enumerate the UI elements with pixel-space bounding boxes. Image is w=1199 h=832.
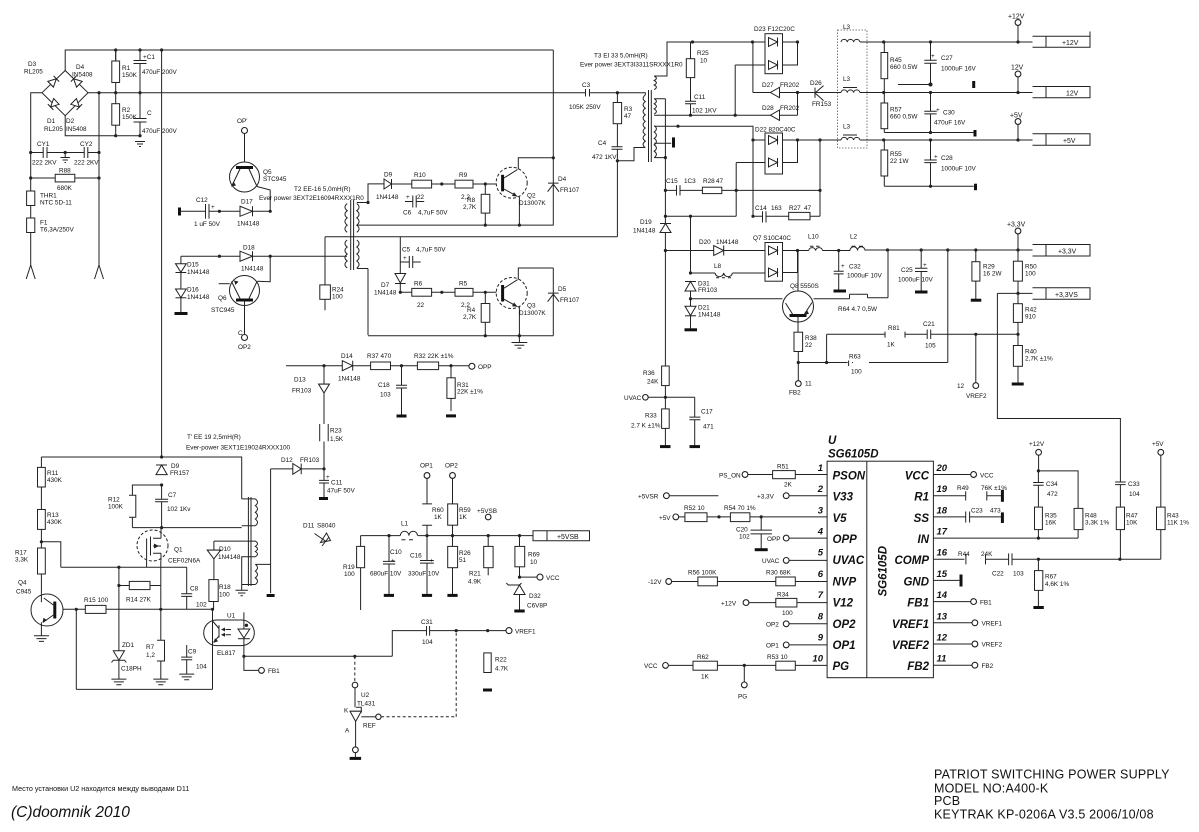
svg-text:R54 70 1%: R54 70 1% bbox=[724, 505, 756, 512]
wire left AC rail bbox=[31, 93, 42, 265]
transformer T2 core bbox=[351, 200, 354, 270]
wire Q1 drain row y=527.6 bbox=[132, 527, 241, 529]
svg-text:C17: C17 bbox=[701, 409, 713, 416]
svg-text:Q7 S10C40C: Q7 S10C40C bbox=[753, 235, 791, 242]
AC line arrow left bbox=[26, 265, 35, 279]
svg-text:D23 F12C20C: D23 F12C20C bbox=[754, 26, 795, 33]
wire D22 lower input bbox=[736, 163, 765, 217]
svg-text:D9: D9 bbox=[171, 463, 180, 470]
svg-text:680K: 680K bbox=[57, 185, 73, 192]
svg-text:104: 104 bbox=[422, 639, 433, 646]
svg-text:D7: D7 bbox=[381, 282, 390, 289]
ground D21 bbox=[685, 328, 698, 331]
svg-text:19: 19 bbox=[937, 484, 948, 495]
resistor R62 1K bbox=[693, 661, 717, 670]
svg-text:222 2KV: 222 2KV bbox=[74, 160, 99, 167]
capacitor C1 470uF 200V bbox=[134, 50, 147, 93]
resistor R11 430K bbox=[38, 467, 46, 487]
svg-text:R38: R38 bbox=[805, 335, 817, 342]
svg-text:2.7 K ±1%: 2.7 K ±1% bbox=[631, 423, 661, 430]
svg-text:C9: C9 bbox=[188, 649, 197, 656]
wire Q6 base stub bbox=[219, 283, 230, 285]
diode D2 bbox=[71, 99, 82, 110]
svg-text:EL817: EL817 bbox=[217, 650, 236, 657]
svg-text:C18PH: C18PH bbox=[121, 666, 142, 673]
svg-text:R47: R47 bbox=[1126, 513, 1138, 520]
resistor R53 10 bbox=[776, 661, 796, 670]
svg-text:FR202: FR202 bbox=[780, 105, 800, 112]
resistor R21 4.9K bbox=[484, 546, 493, 567]
svg-text:FR157: FR157 bbox=[170, 470, 190, 477]
svg-text:UVAC: UVAC bbox=[762, 558, 780, 565]
svg-text:R27: R27 bbox=[789, 205, 801, 212]
svg-text:R43: R43 bbox=[1167, 513, 1179, 520]
svg-text:R40: R40 bbox=[1025, 349, 1037, 356]
capacitor C4 472 1KV bbox=[612, 147, 623, 237]
transformer T2 left winding bbox=[345, 204, 347, 269]
wire +12V comp branch bbox=[1038, 471, 1078, 509]
svg-text:+: + bbox=[931, 53, 935, 60]
transistor Q5 STC945 bbox=[230, 162, 260, 192]
resistor R40 2,7K bbox=[1013, 346, 1022, 367]
wire rectifier bus x=753 bbox=[753, 140, 765, 216]
svg-text:22 1W: 22 1W bbox=[890, 158, 909, 165]
wire U2 dashed feed bbox=[354, 656, 356, 682]
svg-text:PG: PG bbox=[738, 694, 747, 701]
svg-text:+: + bbox=[406, 194, 410, 201]
ground GND pin15 bbox=[933, 579, 959, 581]
svg-text:R36: R36 bbox=[643, 370, 655, 377]
svg-text:Ever power 3EXT3I3311SRXXX1R0: Ever power 3EXT3I3311SRXXX1R0 bbox=[580, 62, 683, 69]
svg-text:C31: C31 bbox=[421, 619, 433, 626]
svg-text:1N4148: 1N4148 bbox=[698, 312, 721, 319]
svg-text:C12: C12 bbox=[196, 197, 208, 204]
svg-text:2,7K: 2,7K bbox=[463, 314, 477, 321]
svg-text:R24: R24 bbox=[332, 287, 344, 294]
svg-text:22: 22 bbox=[417, 194, 425, 201]
terminal VCC pin20 bbox=[933, 474, 970, 476]
resistor R36 24K bbox=[662, 366, 670, 386]
svg-text:IN5408: IN5408 bbox=[66, 126, 87, 133]
svg-text:T' EE 19 2,5mH(R): T' EE 19 2,5mH(R) bbox=[187, 434, 241, 441]
capacitor C7 102 1Kv bbox=[155, 485, 168, 528]
resistor R30 68K bbox=[776, 577, 796, 586]
svg-text:660 0.5W: 660 0.5W bbox=[890, 64, 918, 71]
svg-text:L8: L8 bbox=[714, 263, 722, 270]
svg-text:R8: R8 bbox=[467, 197, 476, 204]
svg-text:R57: R57 bbox=[890, 107, 902, 114]
svg-text:C28: C28 bbox=[941, 155, 953, 162]
wire +5V rail bbox=[860, 139, 1033, 141]
svg-text:11: 11 bbox=[805, 381, 812, 388]
svg-text:R37 470: R37 470 bbox=[367, 353, 392, 360]
svg-text:D3: D3 bbox=[28, 61, 37, 68]
svg-text:C: C bbox=[147, 110, 152, 117]
svg-text:15: 15 bbox=[937, 569, 948, 580]
ground ZD1 bbox=[111, 679, 126, 685]
svg-text:1N4148: 1N4148 bbox=[376, 194, 399, 201]
ground below C bbox=[135, 142, 145, 147]
diode D19 1N4148 bbox=[660, 223, 671, 225]
svg-text:1K: 1K bbox=[434, 514, 443, 521]
svg-text:76K ±1%: 76K ±1% bbox=[981, 485, 1007, 492]
capacitor C30 470uF 16V bbox=[924, 93, 936, 133]
svg-text:R14 27K: R14 27K bbox=[126, 597, 152, 604]
wire OP' to Q5 bbox=[244, 134, 246, 163]
node junction dots top rail bbox=[114, 48, 117, 51]
capacitor C28 1000uF 10V bbox=[924, 140, 936, 186]
svg-text:Место установки U2 находится м: Место установки U2 находится между вывод… bbox=[12, 784, 189, 793]
svg-text:R10: R10 bbox=[414, 172, 426, 179]
svg-text:U1: U1 bbox=[227, 613, 236, 620]
wire T2 bottom right to Q3 emitter return bbox=[357, 269, 368, 336]
resistor R14 27K bbox=[129, 581, 150, 589]
transformer T3 secondary windings bbox=[654, 76, 656, 158]
svg-text:8: 8 bbox=[818, 611, 824, 622]
svg-text:C14: C14 bbox=[755, 205, 767, 212]
resistor R45 660 0.5W bbox=[881, 53, 888, 79]
wire h2 y=216.2 bbox=[665, 215, 736, 217]
svg-text:R15 100: R15 100 bbox=[84, 597, 109, 604]
svg-text:4.7K: 4.7K bbox=[495, 666, 509, 673]
svg-text:10: 10 bbox=[812, 654, 823, 665]
svg-text:R33: R33 bbox=[645, 413, 657, 420]
svg-text:C6: C6 bbox=[403, 210, 412, 217]
diode D17 1N4148 bbox=[219, 206, 270, 216]
svg-text:STC945: STC945 bbox=[211, 307, 235, 314]
svg-text:R11: R11 bbox=[47, 470, 59, 477]
svg-text:1000uF 10V: 1000uF 10V bbox=[941, 166, 977, 173]
wire ground rail 12V row bbox=[898, 84, 931, 86]
wire OPP snubber row y=365.7 bbox=[286, 365, 469, 367]
wire right AC rail bbox=[98, 93, 100, 265]
svg-text:D18: D18 bbox=[243, 245, 255, 252]
svg-text:FB1: FB1 bbox=[268, 668, 280, 675]
ground earth at CY junction bbox=[64, 151, 67, 154]
svg-text:13: 13 bbox=[937, 611, 948, 622]
svg-text:100: 100 bbox=[332, 294, 343, 301]
svg-text:+12V: +12V bbox=[721, 600, 737, 607]
svg-text:R32 22K ±1%: R32 22K ±1% bbox=[414, 353, 454, 360]
svg-text:470uF 200V: 470uF 200V bbox=[142, 69, 178, 76]
resistor R67 4,6K bbox=[1037, 559, 1039, 570]
diode D31 FR103 bbox=[685, 281, 696, 283]
svg-text:150K: 150K bbox=[122, 72, 138, 79]
svg-text:222 2KV: 222 2KV bbox=[32, 160, 57, 167]
svg-text:R62: R62 bbox=[697, 654, 709, 661]
transformer T2 right winding bbox=[357, 204, 359, 269]
svg-text:R23: R23 bbox=[330, 428, 342, 435]
svg-text:105K 250V: 105K 250V bbox=[569, 104, 601, 111]
diode D10 1N4148 bbox=[207, 541, 220, 580]
wire Q8 base bbox=[691, 298, 783, 300]
svg-text:+5VSB: +5VSB bbox=[557, 534, 579, 541]
resistor R10 22 bbox=[412, 180, 432, 188]
capacitor C33 104 bbox=[1115, 482, 1126, 507]
svg-text:R1: R1 bbox=[914, 492, 929, 504]
capacitor C6 4,7uF 50V bbox=[405, 196, 424, 208]
svg-text:L10: L10 bbox=[808, 234, 819, 241]
resistor R25 10 bbox=[686, 59, 694, 78]
svg-text:C16: C16 bbox=[410, 553, 422, 560]
svg-text:100: 100 bbox=[219, 592, 230, 599]
terminal VREF1 bbox=[506, 628, 512, 634]
terminal FB2 pin11 bbox=[933, 664, 972, 666]
svg-text:R81: R81 bbox=[888, 325, 900, 332]
svg-text:SS: SS bbox=[914, 513, 930, 525]
svg-text:GND: GND bbox=[903, 576, 929, 588]
wire y=126.2 winding to rectifier bus bbox=[654, 126, 753, 140]
terminal FB2 pin11 bbox=[795, 381, 801, 387]
svg-text:R52 10: R52 10 bbox=[684, 505, 705, 512]
resistor R54 70 1% bbox=[730, 513, 750, 522]
svg-text:12: 12 bbox=[937, 633, 948, 644]
diode D9 1N4148 bbox=[368, 179, 412, 203]
svg-text:L3: L3 bbox=[843, 24, 851, 31]
svg-text:NVP: NVP bbox=[833, 576, 857, 588]
svg-text:3: 3 bbox=[818, 505, 824, 516]
diode D20 1N4148 bbox=[714, 246, 724, 256]
wire h3 +3.3 generation y=250.5 bbox=[665, 250, 765, 252]
wire T2 top right to D9 node bbox=[357, 184, 368, 203]
svg-text:5: 5 bbox=[818, 548, 824, 559]
resistor R1 150K bbox=[112, 61, 120, 83]
svg-text:OP2: OP2 bbox=[833, 619, 857, 631]
svg-text:R12: R12 bbox=[108, 497, 120, 504]
svg-text:4: 4 bbox=[817, 527, 824, 538]
diode D13 FR103 bbox=[319, 366, 330, 469]
svg-text:22K ±1%: 22K ±1% bbox=[457, 389, 483, 396]
svg-text:Q1: Q1 bbox=[174, 547, 183, 554]
svg-text:C7: C7 bbox=[168, 492, 177, 499]
capacitor C22 103 bbox=[1009, 553, 1161, 565]
svg-text:1N4148: 1N4148 bbox=[237, 221, 260, 228]
svg-text:R49: R49 bbox=[957, 485, 969, 492]
svg-text:R30 68K: R30 68K bbox=[766, 570, 792, 577]
svg-text:FR103: FR103 bbox=[698, 287, 718, 294]
capacitor C11 102 1KV bbox=[685, 101, 696, 115]
svg-text:11: 11 bbox=[937, 654, 947, 665]
svg-text:47: 47 bbox=[804, 205, 812, 212]
choke L3 dashed box bbox=[838, 30, 868, 148]
wire +5VSB rail y=535.6 bbox=[361, 535, 533, 537]
svg-text:R51: R51 bbox=[777, 464, 789, 471]
capacitor C 470uF 200V bbox=[134, 93, 147, 136]
svg-text:R29: R29 bbox=[983, 264, 995, 271]
svg-text:4.9K: 4.9K bbox=[468, 579, 482, 586]
svg-text:47uF 50V: 47uF 50V bbox=[327, 488, 355, 495]
svg-text:-12V: -12V bbox=[648, 579, 662, 586]
svg-text:D16: D16 bbox=[187, 287, 199, 294]
svg-text:47: 47 bbox=[624, 113, 632, 120]
svg-text:D4: D4 bbox=[558, 176, 567, 183]
svg-text:COMP: COMP bbox=[895, 555, 930, 567]
svg-text:1,2: 1,2 bbox=[146, 652, 155, 659]
capacitor C21 105 bbox=[927, 330, 1018, 340]
svg-text:OPP: OPP bbox=[833, 534, 858, 546]
svg-text:FR107: FR107 bbox=[560, 187, 580, 194]
ground Q3 emitter bbox=[512, 336, 528, 348]
svg-text:1N4148: 1N4148 bbox=[241, 266, 264, 273]
resistor R29 16 2W bbox=[972, 262, 980, 281]
svg-text:D32: D32 bbox=[529, 593, 541, 600]
wire CY to R88 row bbox=[31, 177, 99, 179]
svg-text:C5: C5 bbox=[402, 247, 411, 254]
resistor R17 3,3K bbox=[38, 548, 46, 574]
svg-text:U: U bbox=[828, 435, 837, 447]
wire vertical x=553.3 top bbox=[357, 50, 554, 225]
wire D23 lower input bbox=[735, 65, 765, 115]
svg-text:2: 2 bbox=[817, 484, 824, 495]
svg-text:150K: 150K bbox=[122, 114, 138, 121]
polarity mark T3 bbox=[654, 142, 671, 144]
svg-text:R3: R3 bbox=[624, 106, 633, 113]
resistor R42 910 bbox=[1013, 304, 1022, 323]
resistor R81 1K bbox=[827, 332, 928, 338]
diode D3 bbox=[48, 76, 59, 87]
svg-text:4,7uF 50V: 4,7uF 50V bbox=[418, 210, 448, 217]
diode D4 FR107 bbox=[548, 183, 559, 192]
resistor R4 2,7K bbox=[481, 304, 490, 323]
svg-text:R45: R45 bbox=[890, 57, 902, 64]
svg-text:REF: REF bbox=[363, 723, 376, 730]
wire Q4 base node bbox=[63, 609, 76, 689]
svg-text:C30: C30 bbox=[943, 110, 955, 117]
resistor R38 22 bbox=[794, 332, 803, 351]
transformer T' winding primary bbox=[242, 499, 258, 526]
svg-text:D2: D2 bbox=[66, 118, 75, 125]
diode D5 FR107 bbox=[548, 268, 559, 336]
svg-text:22: 22 bbox=[805, 342, 813, 349]
svg-text:OP1: OP1 bbox=[420, 463, 433, 470]
transformer T3 primary winding bbox=[617, 93, 645, 161]
svg-text:D20: D20 bbox=[699, 239, 711, 246]
svg-text:F1: F1 bbox=[40, 220, 48, 227]
svg-text:R5: R5 bbox=[459, 281, 468, 288]
svg-text:R56 100K: R56 100K bbox=[688, 570, 717, 577]
svg-text:104: 104 bbox=[196, 664, 207, 671]
capacitor C11b 47uF 50V bbox=[319, 469, 329, 497]
op-amp U SG6105D ic body bbox=[827, 461, 933, 678]
svg-text:R28: R28 bbox=[703, 178, 715, 185]
capacitor C23 473 pin18 bbox=[933, 512, 1001, 523]
svg-text:680uF 10V: 680uF 10V bbox=[370, 571, 402, 578]
wire Q1 source to R7 bbox=[160, 561, 162, 641]
svg-text:16K: 16K bbox=[1045, 520, 1057, 527]
transformer T' winding secondary2 bbox=[242, 564, 271, 584]
capacitor CY2 222 2KV bbox=[65, 147, 99, 158]
svg-text:D13007K: D13007K bbox=[519, 310, 546, 317]
svg-text:FB1: FB1 bbox=[907, 598, 929, 610]
svg-text:C11: C11 bbox=[694, 94, 706, 101]
wire top rail y=50 bbox=[65, 50, 553, 71]
resistor R3 47 bbox=[613, 103, 621, 124]
svg-text:Q2: Q2 bbox=[527, 193, 536, 200]
terminal VREF2 pin12 bbox=[933, 643, 972, 645]
wire D22 outputs join bbox=[783, 140, 798, 163]
capacitor C10 680uF 10V bbox=[383, 536, 395, 596]
wire UVAC sense vertical bbox=[664, 251, 666, 367]
capacitor C31 104 bbox=[427, 626, 430, 636]
svg-text:102 1KV: 102 1KV bbox=[692, 108, 717, 115]
capacitor C3 105K 250V bbox=[586, 89, 590, 97]
svg-text:1K: 1K bbox=[459, 514, 468, 521]
svg-text:9: 9 bbox=[818, 633, 824, 644]
bridge rectifier diamond D1-D4 bbox=[42, 71, 88, 116]
svg-text:STC945: STC945 bbox=[263, 176, 287, 183]
svg-text:RL205: RL205 bbox=[24, 69, 43, 76]
capacitor C16 330uF 10V bbox=[420, 525, 434, 595]
svg-text:IN: IN bbox=[918, 534, 930, 546]
svg-text:A: A bbox=[345, 728, 350, 735]
resistor R57 660 0,5W bbox=[881, 103, 888, 129]
resistor R2 150K bbox=[112, 104, 120, 126]
wire T3 center tap vertical x=665.4 bbox=[654, 99, 665, 251]
svg-text:51: 51 bbox=[459, 557, 467, 564]
resistor R37 470 bbox=[371, 362, 391, 370]
svg-text:R50: R50 bbox=[1025, 264, 1037, 271]
svg-text:U2: U2 bbox=[361, 692, 370, 699]
svg-text:OP2: OP2 bbox=[766, 622, 779, 629]
svg-text:1N4148: 1N4148 bbox=[218, 554, 241, 561]
svg-text:10: 10 bbox=[530, 559, 538, 566]
svg-text:D22 820C40C: D22 820C40C bbox=[755, 127, 796, 134]
svg-text:V33: V33 bbox=[833, 492, 854, 504]
svg-text:RL205: RL205 bbox=[44, 126, 63, 133]
wire ZD1 R14 node bbox=[118, 567, 120, 651]
svg-text:1N4148: 1N4148 bbox=[633, 228, 656, 235]
svg-text:T2 EE-16 5,0mH(R): T2 EE-16 5,0mH(R) bbox=[294, 186, 350, 193]
svg-text:UVAC: UVAC bbox=[833, 555, 865, 567]
resistor R15 100 bbox=[85, 605, 106, 613]
svg-text:+5V: +5V bbox=[1152, 441, 1164, 448]
wire Q7 outputs join bbox=[783, 251, 798, 273]
svg-text:105: 105 bbox=[925, 343, 936, 350]
svg-text:L2: L2 bbox=[850, 234, 858, 241]
resistor R49 76K pin19 bbox=[933, 491, 1001, 500]
svg-text:CEF02N6A: CEF02N6A bbox=[168, 558, 201, 565]
resistor R34 100 bbox=[776, 598, 797, 607]
svg-text:100K: 100K bbox=[108, 504, 124, 511]
wire REF dashed bbox=[381, 631, 456, 717]
resistor R24 100 bbox=[320, 285, 331, 299]
svg-text:R55: R55 bbox=[890, 151, 902, 158]
svg-text:VCC: VCC bbox=[644, 663, 658, 670]
svg-text:KEYTRAK KP-0206A V3.5 2006/10/: KEYTRAK KP-0206A V3.5 2006/10/08 bbox=[934, 808, 1154, 822]
svg-text:2,7K ±1%: 2,7K ±1% bbox=[1025, 356, 1053, 363]
svg-text:1C3: 1C3 bbox=[684, 178, 696, 185]
resistor R23 1,5K bbox=[320, 424, 329, 441]
svg-text:1,5K: 1,5K bbox=[330, 436, 344, 443]
svg-text:10K: 10K bbox=[1126, 520, 1138, 527]
terminal PG stub bbox=[743, 665, 745, 682]
capacitor C32 1000uF 10V bbox=[834, 251, 844, 291]
svg-text:+C1: +C1 bbox=[143, 54, 155, 61]
svg-text:D4: D4 bbox=[76, 64, 85, 71]
ground T' secondary1 bbox=[236, 569, 248, 596]
svg-text:660 0,5W: 660 0,5W bbox=[890, 114, 918, 121]
wire D18 row y=256.2 bbox=[181, 255, 347, 257]
svg-text:14: 14 bbox=[937, 590, 948, 601]
svg-text:C3: C3 bbox=[582, 82, 591, 89]
resistor R5 2,2 bbox=[455, 288, 473, 296]
svg-text:Ever power 3EXT2E16094RXXX1R0: Ever power 3EXT2E16094RXXX1R0 bbox=[259, 195, 364, 202]
terminal OPP bbox=[469, 363, 475, 369]
wire snubber tap x=820 bbox=[819, 140, 821, 216]
svg-text:+: + bbox=[936, 107, 940, 114]
wire D31 branch x=690.5 bbox=[690, 216, 692, 329]
wire bottom return rail bbox=[76, 688, 212, 690]
